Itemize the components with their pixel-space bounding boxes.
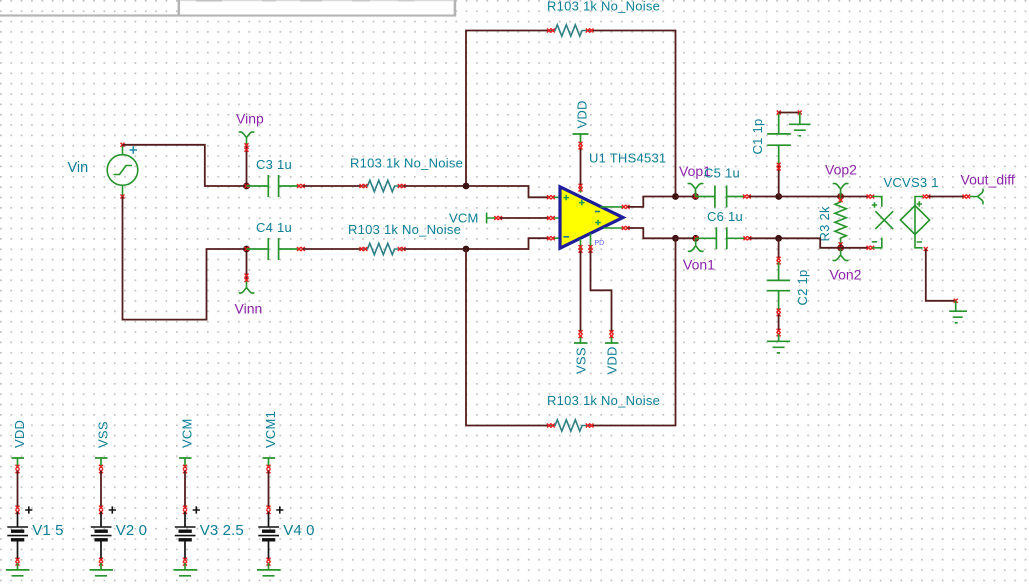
resistor R103 upper input	[362, 180, 404, 191]
node Von1 terminal	[692, 235, 699, 242]
svg-text:Vop2: Vop2	[825, 162, 857, 178]
node Vinp terminal	[246, 145, 248, 187]
junction C4 input	[243, 246, 250, 253]
wire: Vin- loop to C4 junction	[123, 197, 247, 320]
resistor R103 bottom feedback	[549, 420, 591, 431]
svg-text:R103 1k No_Noise: R103 1k No_Noise	[348, 222, 461, 237]
node Vinn terminal	[246, 249, 248, 280]
svg-text:VSS: VSS	[96, 421, 111, 448]
wire C6 to C2 junction	[749, 237, 778, 239]
VDD bottom power of op-amp (PD pin)	[591, 251, 612, 332]
wire: op-amp out+ to upper output rail	[628, 197, 676, 207]
wire: C3 to R103 upper	[303, 185, 362, 187]
wire Vop2 to VCVS control +	[841, 196, 868, 198]
svg-text:R103 1k No_Noise: R103 1k No_Noise	[350, 156, 463, 171]
capacitor C4	[247, 238, 300, 260]
svg-text:V1 5: V1 5	[32, 522, 63, 539]
svg-text:U1 THS4531: U1 THS4531	[589, 151, 666, 166]
wire: op-amp out- to lower output rail	[628, 228, 676, 238]
toolbar remnant: bottom border	[0, 14, 456, 16]
jumper VCM	[487, 213, 495, 224]
wire: VCM to op-amp	[500, 217, 549, 219]
battery V1 5	[6, 420, 64, 576]
svg-text:R103 1k No_Noise: R103 1k No_Noise	[547, 0, 660, 14]
capacitor C3	[247, 175, 300, 197]
op-amp marks	[563, 195, 600, 226]
plus mark of Vin	[130, 146, 138, 154]
node Vop2 terminal	[837, 193, 844, 200]
svg-text:C3 1u: C3 1u	[256, 157, 292, 172]
resistor R3 vertical	[835, 197, 846, 248]
junction C1 tap	[775, 193, 782, 200]
svg-text:VCM: VCM	[449, 211, 479, 226]
svg-text:VSS: VSS	[574, 347, 589, 374]
svg-text:V2 0: V2 0	[116, 522, 147, 539]
svg-text:Vin: Vin	[68, 160, 89, 176]
battery V4 0	[257, 458, 315, 576]
svg-text:Von2: Von2	[830, 267, 862, 283]
svg-text:VDD: VDD	[605, 346, 620, 374]
svg-text:R103 1k No_Noise: R103 1k No_Noise	[547, 393, 660, 408]
svg-text:VCM1: VCM1	[263, 411, 278, 448]
ground (VCVS)	[949, 301, 967, 323]
toolbar remnant: vertical divider right	[454, 0, 457, 16]
VCVS3 controlling port	[872, 197, 893, 248]
wire VCVS- to ground	[926, 249, 956, 301]
svg-text:VDD: VDD	[12, 420, 27, 448]
svg-text:C5 1u: C5 1u	[704, 166, 740, 181]
junction C2 tap	[775, 235, 782, 242]
svg-text:Von1: Von1	[683, 257, 715, 273]
wire: top feedback right horizontal + right vertical	[592, 31, 676, 197]
svg-text:C2 1p: C2 1p	[795, 270, 810, 306]
wire: R103 upper to op-amp	[404, 186, 550, 197]
wire C5 to C1 junction	[749, 196, 779, 198]
wire lower rail to Von1	[676, 237, 696, 239]
svg-text:C1 1p: C1 1p	[750, 119, 765, 155]
wire: C4 to R103 lower	[303, 248, 362, 250]
node Vout_diff terminal	[971, 189, 984, 204]
ground (C2)	[767, 334, 790, 353]
capacitor C1	[778, 165, 780, 197]
wire: top feedback left vertical + top horizontal left	[466, 31, 549, 187]
capacitor C5	[696, 186, 746, 208]
VCVS3 source	[900, 197, 929, 248]
capacitor C2	[778, 238, 780, 258]
wire Von2 to VCVS control -	[841, 247, 868, 249]
svg-text:VCM: VCM	[180, 418, 195, 448]
svg-text:VDD: VDD	[575, 100, 590, 128]
svg-text:Vinn: Vinn	[235, 301, 263, 317]
wire: Vin+ to C3 junction	[123, 145, 247, 186]
svg-text:R3 2k: R3 2k	[817, 206, 832, 241]
wire upper rail to Vop1	[676, 196, 696, 198]
junction lower feedback tap	[463, 246, 470, 253]
svg-text:PD: PD	[595, 240, 605, 247]
svg-text:C4 1u: C4 1u	[256, 220, 292, 235]
svg-text:V3 2.5: V3 2.5	[200, 522, 244, 539]
battery V3 2.5	[174, 458, 244, 576]
battery V2 0	[90, 458, 148, 576]
VSS bottom power of op-amp	[580, 251, 582, 332]
junction lower rail / feedback	[672, 235, 679, 242]
wire C2 to ground	[778, 314, 780, 331]
node Von2 terminal	[837, 244, 844, 251]
wire: upper rail to Vop2/R3	[779, 196, 841, 198]
svg-text:Vout_diff: Vout_diff	[961, 172, 1015, 188]
op-amp U1 THS4531	[552, 185, 623, 250]
toolbar remnant: vertical divider left	[178, 0, 181, 15]
svg-text:VCVS3 1: VCVS3 1	[884, 175, 939, 190]
svg-text:Vinp: Vinp	[236, 111, 264, 127]
capacitor C6	[696, 227, 746, 249]
wire C1 top to ground	[779, 112, 800, 114]
junction upper rail / feedback	[672, 193, 679, 200]
svg-text:V4 0: V4 0	[283, 522, 314, 539]
wire: bottom feedback left vertical + bottom horizontal	[466, 249, 549, 426]
ground (C1)	[789, 113, 811, 136]
wire VCVS out to Vout_diff	[928, 196, 964, 198]
node Vop1 terminal	[692, 193, 699, 200]
junction upper feedback tap	[463, 183, 470, 190]
VDD top power of op-amp	[580, 148, 582, 185]
resistor R103 lower input	[362, 243, 404, 254]
wire: bottom feedback right	[592, 238, 676, 425]
svg-text:C6 1u: C6 1u	[707, 209, 743, 224]
resistor R103 top feedback	[549, 25, 591, 36]
wire: R103 lower to op-amp	[404, 238, 550, 249]
voltage source Vin	[107, 145, 138, 197]
junction C3 input	[243, 183, 250, 190]
wire R3 bottom to lower rail	[779, 238, 841, 248]
